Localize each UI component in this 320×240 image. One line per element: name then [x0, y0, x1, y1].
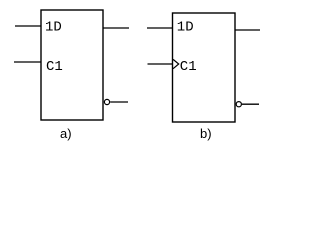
wire: U2 inverted Q output — [242, 103, 259, 105]
wire: U1 clock input C1 — [14, 61, 41, 63]
svg-text:b): b) — [200, 126, 212, 141]
svg-text:1D: 1D — [177, 19, 194, 35]
wire: U1 inverted Q output — [110, 101, 128, 103]
wire: U1 data input D — [15, 25, 41, 27]
wire: U2 Q output — [235, 29, 260, 31]
wire: U2 data input D — [147, 27, 173, 29]
svg-text:C1: C1 — [180, 59, 197, 75]
wire: U1 Q output — [103, 27, 129, 29]
svg-text:a): a) — [60, 126, 72, 141]
inversion bubble on U2 inverted output — [236, 102, 241, 107]
inversion bubble on U1 inverted output — [104, 99, 109, 104]
wire: U2 clock input C1 — [148, 63, 173, 65]
D latch U1 (variant a) outline — [41, 10, 103, 120]
svg-text:C1: C1 — [46, 59, 63, 75]
dynamic (edge-trigger) indicator on U2 C1 input — [173, 59, 179, 68]
svg-text:1D: 1D — [45, 19, 62, 35]
D flip-flop U2 (variant b) outline — [173, 13, 236, 122]
